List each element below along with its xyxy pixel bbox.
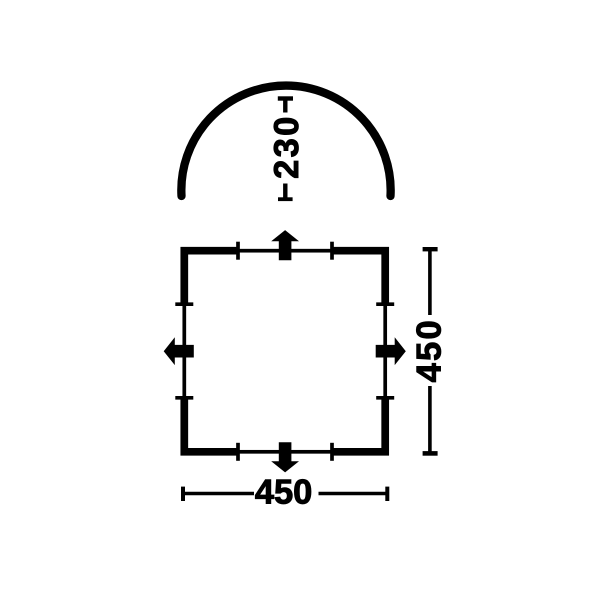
width dimension 450 right: top tick: [423, 247, 438, 251]
floor plan: tick top side right: [330, 242, 334, 260]
floor plan: thick corner top-left: [184, 251, 238, 305]
width dimension 450 right: lower line: [428, 386, 432, 453]
floor plan: tick left side lower: [175, 396, 193, 400]
floor plan: tick bottom side right: [330, 443, 334, 461]
width dimension 450 right: bottom tick: [423, 451, 438, 456]
width dimension 450 right: upper line: [428, 249, 432, 315]
floor plan: tick right side upper: [376, 302, 394, 306]
door arrow top: [271, 230, 299, 260]
door arrow right: [376, 337, 406, 365]
door arrow bottom: [271, 442, 299, 472]
height dimension 230: bottom tick: [278, 197, 293, 201]
width dimension 450 bottom: right line: [319, 492, 388, 496]
width dimension 450 bottom: right tick: [385, 487, 389, 501]
floor plan: tick left side upper: [175, 302, 193, 306]
height dimension 230: lower stem: [283, 184, 287, 200]
floor plan: thick corner bottom-left: [184, 398, 238, 452]
floor plan: tick top side left: [236, 242, 240, 260]
width dimension 450 bottom: left line: [183, 492, 254, 496]
svg-text:450: 450: [411, 318, 449, 382]
floor plan: thick corner bottom-right: [332, 398, 385, 452]
floor plan: thick corner top-right: [332, 251, 385, 305]
floor plan: tick bottom side left: [236, 443, 240, 461]
height dimension 230: upper stem: [283, 99, 287, 113]
width dimension 450 bottom: left tick: [181, 487, 185, 501]
door arrow left: [164, 337, 194, 365]
svg-text:230: 230: [268, 114, 306, 178]
dome profile arch: [181, 86, 390, 196]
floor plan: tick right side lower: [376, 396, 394, 400]
height dimension 230: top tick: [278, 96, 293, 100]
svg-text:450: 450: [255, 474, 313, 512]
floor plan: thin wall outline: [184, 251, 385, 452]
